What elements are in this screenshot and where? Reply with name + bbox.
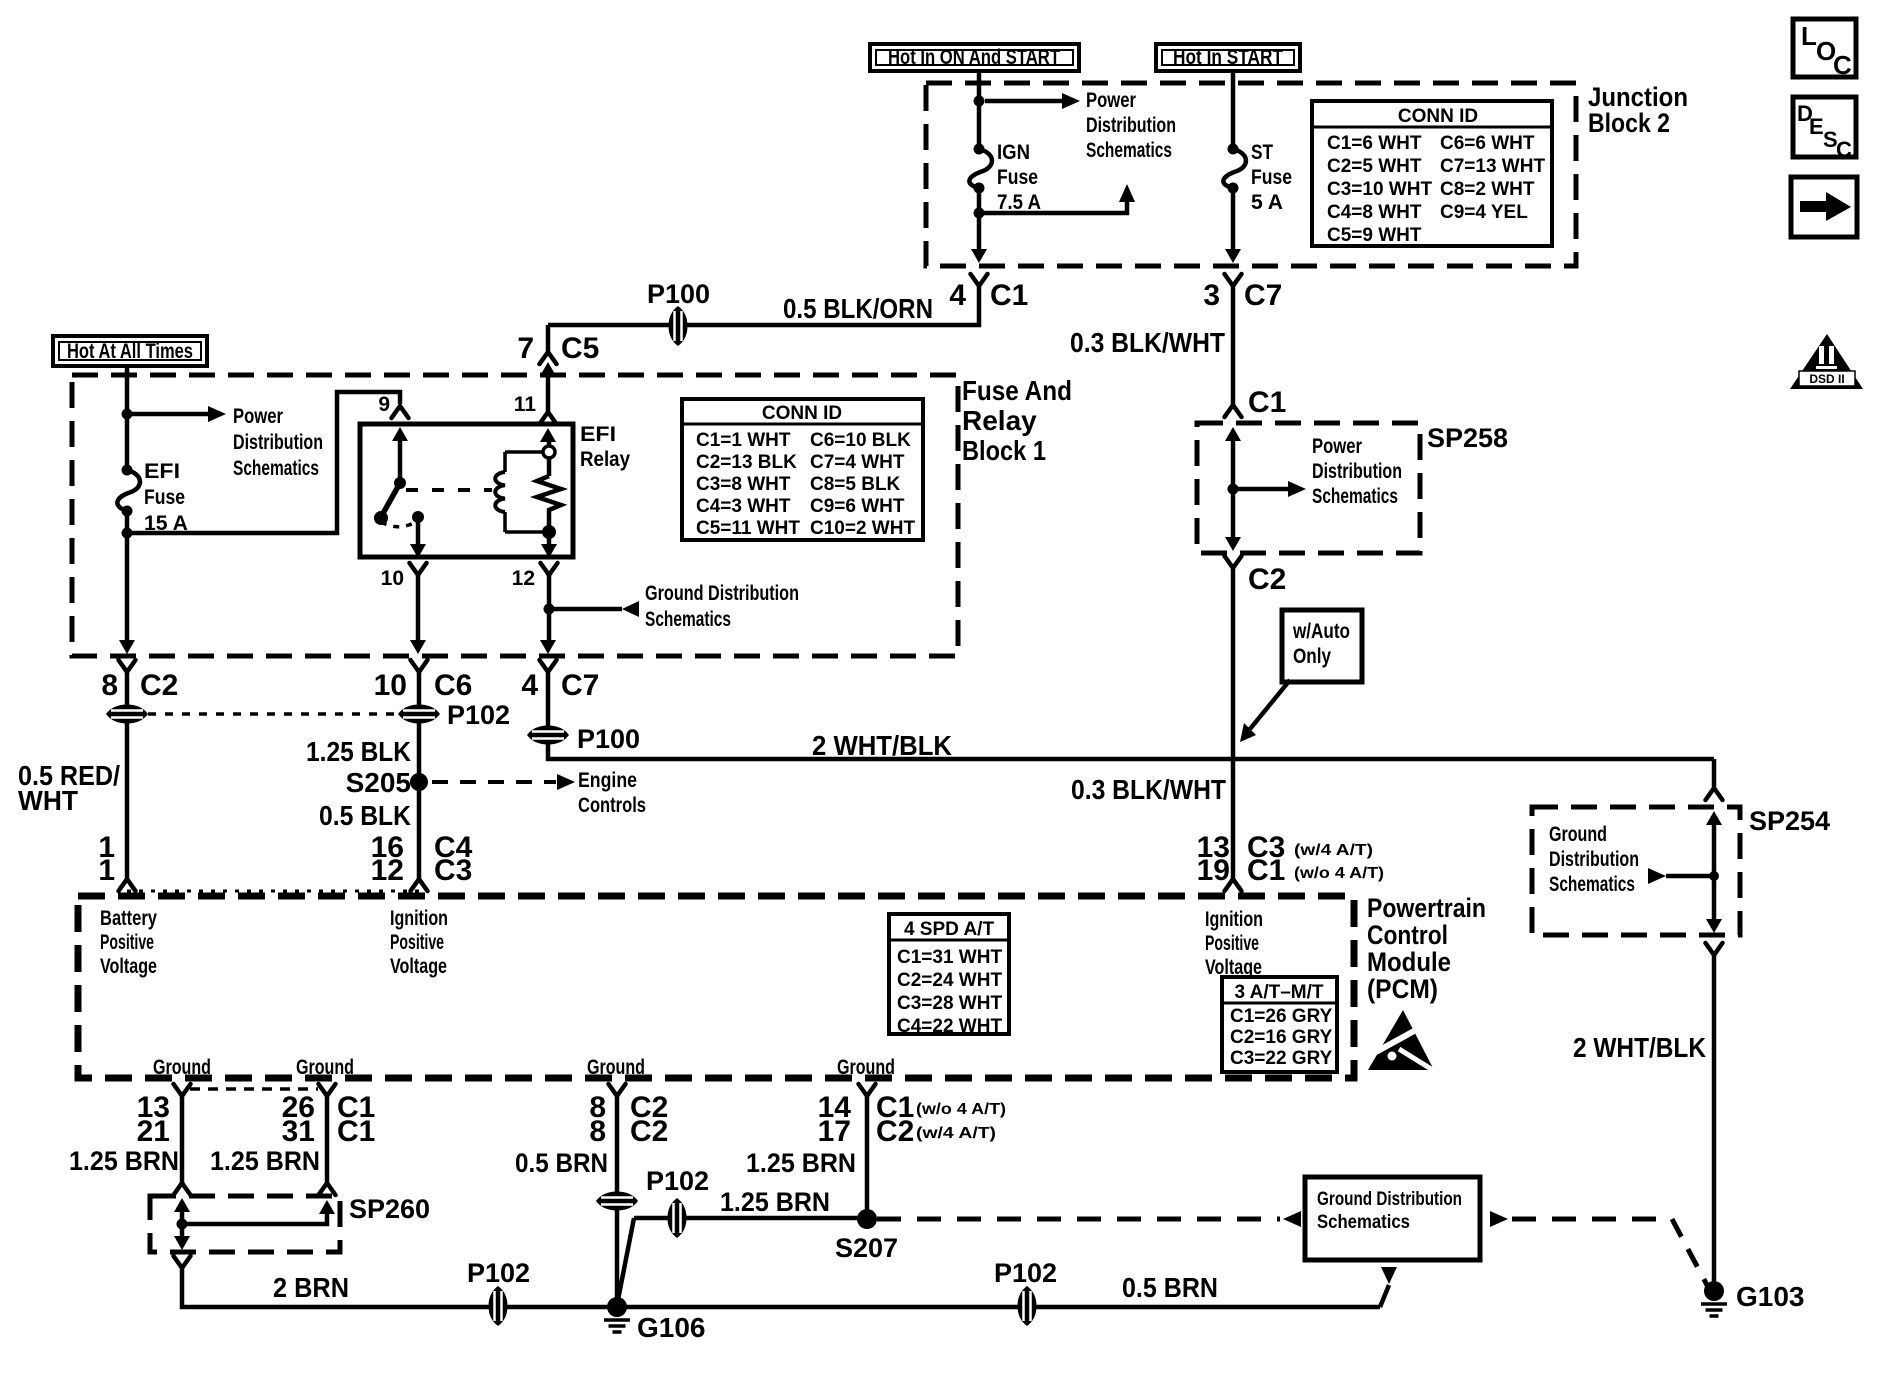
svg-text:CONN ID: CONN ID bbox=[762, 403, 842, 424]
svg-text:C1: C1 bbox=[990, 279, 1028, 312]
svg-text:Ground: Ground bbox=[1549, 823, 1607, 846]
svg-text:Block 2: Block 2 bbox=[1588, 108, 1670, 138]
svg-text:Positive: Positive bbox=[1205, 932, 1259, 955]
svg-text:Distribution: Distribution bbox=[1549, 848, 1639, 871]
svg-text:C9=4 YEL: C9=4 YEL bbox=[1440, 202, 1528, 223]
svg-text:SP260: SP260 bbox=[349, 1194, 430, 1224]
svg-text:C1=26 GRY: C1=26 GRY bbox=[1230, 1006, 1333, 1027]
svg-text:1.25 BRN: 1.25 BRN bbox=[746, 1148, 856, 1178]
svg-text:2 WHT/BLK: 2 WHT/BLK bbox=[812, 730, 952, 761]
svg-text:Control: Control bbox=[1367, 920, 1448, 950]
svg-text:Battery: Battery bbox=[100, 907, 157, 930]
svg-text:Ground: Ground bbox=[587, 1056, 645, 1079]
svg-text:Engine: Engine bbox=[578, 769, 637, 792]
svg-text:Hot In ON And START: Hot In ON And START bbox=[888, 46, 1060, 69]
svg-text:C3=8 WHT: C3=8 WHT bbox=[696, 474, 791, 495]
svg-text:C6=6 WHT: C6=6 WHT bbox=[1440, 133, 1535, 154]
svg-text:Ignition: Ignition bbox=[1205, 908, 1263, 931]
svg-text:Ground Distribution: Ground Distribution bbox=[1317, 1189, 1462, 1210]
svg-text:C10=2 WHT: C10=2 WHT bbox=[810, 518, 915, 539]
svg-text:DSD II: DSD II bbox=[1809, 372, 1844, 386]
svg-text:S207: S207 bbox=[835, 1233, 898, 1263]
svg-text:C2=24 WHT: C2=24 WHT bbox=[897, 970, 1002, 991]
svg-text:C4=3 WHT: C4=3 WHT bbox=[696, 496, 791, 517]
svg-text:(w/o 4 A/T): (w/o 4 A/T) bbox=[1294, 865, 1384, 882]
svg-text:L: L bbox=[1801, 21, 1817, 51]
svg-text:C2: C2 bbox=[1248, 563, 1286, 596]
svg-text:Distribution: Distribution bbox=[1312, 460, 1402, 483]
svg-text:Fuse: Fuse bbox=[997, 166, 1038, 189]
svg-text:C2=5 WHT: C2=5 WHT bbox=[1327, 156, 1422, 177]
svg-text:10: 10 bbox=[381, 567, 404, 590]
svg-text:7: 7 bbox=[517, 332, 534, 365]
svg-text:Voltage: Voltage bbox=[100, 955, 157, 978]
svg-text:Module: Module bbox=[1367, 947, 1451, 977]
svg-text:C2: C2 bbox=[876, 1115, 914, 1148]
svg-text:C3=22 GRY: C3=22 GRY bbox=[1230, 1048, 1333, 1069]
svg-text:C7=13 WHT: C7=13 WHT bbox=[1440, 156, 1545, 177]
svg-text:8: 8 bbox=[101, 669, 118, 702]
svg-text:Distribution: Distribution bbox=[233, 431, 323, 454]
svg-text:C2: C2 bbox=[140, 669, 178, 702]
svg-text:(w/4 A/T): (w/4 A/T) bbox=[1294, 842, 1373, 859]
svg-text:Ground: Ground bbox=[296, 1056, 354, 1079]
svg-text:C1=6 WHT: C1=6 WHT bbox=[1327, 133, 1422, 154]
svg-text:17: 17 bbox=[818, 1115, 851, 1148]
svg-text:12: 12 bbox=[512, 567, 535, 590]
svg-text:C7=4 WHT: C7=4 WHT bbox=[810, 452, 905, 473]
svg-text:C1: C1 bbox=[1247, 854, 1285, 887]
svg-text:P100: P100 bbox=[647, 279, 710, 309]
svg-text:Controls: Controls bbox=[578, 794, 646, 817]
svg-text:19: 19 bbox=[1197, 854, 1230, 887]
svg-text:C2=13 BLK: C2=13 BLK bbox=[696, 452, 797, 473]
svg-text:1.25 BLK: 1.25 BLK bbox=[306, 736, 411, 767]
svg-text:(w/o 4 A/T): (w/o 4 A/T) bbox=[916, 1101, 1006, 1118]
svg-text:0.5 BRN: 0.5 BRN bbox=[1122, 1272, 1218, 1303]
svg-text:C7: C7 bbox=[1244, 279, 1282, 312]
svg-text:C3=10 WHT: C3=10 WHT bbox=[1327, 179, 1432, 200]
svg-text:(w/4 A/T): (w/4 A/T) bbox=[916, 1125, 996, 1142]
svg-text:P102: P102 bbox=[467, 1258, 530, 1288]
svg-text:Only: Only bbox=[1293, 645, 1331, 668]
svg-text:C8=2 WHT: C8=2 WHT bbox=[1440, 179, 1535, 200]
svg-text:Fuse: Fuse bbox=[1251, 166, 1292, 189]
svg-text:Fuse And: Fuse And bbox=[962, 375, 1072, 406]
svg-text:1.25 BRN: 1.25 BRN bbox=[69, 1146, 179, 1176]
svg-text:C6=10 BLK: C6=10 BLK bbox=[810, 430, 911, 451]
svg-text:P102: P102 bbox=[646, 1166, 709, 1196]
svg-text:Ground Distribution: Ground Distribution bbox=[645, 582, 799, 605]
svg-text:P102: P102 bbox=[994, 1258, 1057, 1288]
svg-text:12: 12 bbox=[371, 854, 404, 887]
svg-text:C: C bbox=[1836, 137, 1852, 162]
svg-text:4: 4 bbox=[521, 669, 538, 702]
svg-text:11: 11 bbox=[514, 393, 537, 416]
svg-text:Power: Power bbox=[1086, 89, 1136, 112]
svg-text:C1: C1 bbox=[337, 1115, 375, 1148]
svg-text:C1=1 WHT: C1=1 WHT bbox=[696, 430, 791, 451]
svg-text:E: E bbox=[1809, 114, 1824, 139]
svg-text:C4=8 WHT: C4=8 WHT bbox=[1327, 202, 1422, 223]
svg-text:C2=16 GRY: C2=16 GRY bbox=[1230, 1027, 1333, 1048]
svg-text:31: 31 bbox=[282, 1115, 315, 1148]
svg-text:C5=9 WHT: C5=9 WHT bbox=[1327, 225, 1422, 246]
svg-text:C5=11 WHT: C5=11 WHT bbox=[696, 518, 800, 539]
svg-text:Relay: Relay bbox=[962, 405, 1037, 436]
svg-text:Schematics: Schematics bbox=[1317, 1212, 1410, 1233]
svg-text:Schematics: Schematics bbox=[645, 608, 731, 631]
svg-text:0.5 BLK/ORN: 0.5 BLK/ORN bbox=[783, 293, 933, 324]
svg-text:Power: Power bbox=[233, 405, 283, 428]
svg-text:Distribution: Distribution bbox=[1086, 114, 1176, 137]
svg-text:C1=31 WHT: C1=31 WHT bbox=[897, 947, 1002, 968]
svg-text:C7: C7 bbox=[561, 669, 599, 702]
svg-text:3 A/T–M/T: 3 A/T–M/T bbox=[1234, 982, 1323, 1003]
svg-text:5 A: 5 A bbox=[1251, 191, 1283, 214]
svg-text:Ignition: Ignition bbox=[390, 907, 448, 930]
svg-text:C8=5 BLK: C8=5 BLK bbox=[810, 474, 901, 495]
svg-text:Positive: Positive bbox=[100, 931, 154, 954]
svg-text:C5: C5 bbox=[561, 332, 599, 365]
svg-text:G106: G106 bbox=[637, 1312, 706, 1343]
svg-text:Hot In START: Hot In START bbox=[1173, 46, 1283, 69]
svg-text:ST: ST bbox=[1251, 141, 1273, 164]
svg-text:2 BRN: 2 BRN bbox=[273, 1272, 349, 1303]
svg-text:WHT: WHT bbox=[18, 785, 78, 816]
svg-text:Relay: Relay bbox=[580, 448, 630, 471]
svg-text:EFI: EFI bbox=[144, 460, 180, 483]
svg-text:C9=6 WHT: C9=6 WHT bbox=[810, 496, 905, 517]
svg-text:P100: P100 bbox=[577, 724, 640, 754]
svg-text:SP258: SP258 bbox=[1427, 423, 1508, 453]
svg-text:1: 1 bbox=[98, 854, 115, 887]
svg-text:Voltage: Voltage bbox=[390, 955, 447, 978]
svg-text:7.5 A: 7.5 A bbox=[997, 191, 1041, 214]
svg-text:0.5 BLK: 0.5 BLK bbox=[319, 800, 411, 831]
svg-text:Schematics: Schematics bbox=[1549, 873, 1635, 896]
svg-text:C4=22 WHT: C4=22 WHT bbox=[897, 1016, 1002, 1037]
svg-text:Positive: Positive bbox=[390, 931, 444, 954]
svg-text:Schematics: Schematics bbox=[1312, 485, 1398, 508]
svg-text:0.3 BLK/WHT: 0.3 BLK/WHT bbox=[1070, 327, 1225, 358]
svg-text:Powertrain: Powertrain bbox=[1367, 893, 1486, 923]
svg-text:IGN: IGN bbox=[997, 141, 1030, 164]
svg-text:C3: C3 bbox=[434, 854, 472, 887]
svg-text:EFI: EFI bbox=[580, 423, 616, 446]
svg-text:Hot At All Times: Hot At All Times bbox=[67, 340, 193, 363]
svg-text:1.25 BRN: 1.25 BRN bbox=[720, 1187, 830, 1217]
svg-text:Ground: Ground bbox=[153, 1056, 211, 1079]
svg-text:C: C bbox=[1833, 50, 1852, 80]
svg-text:Schematics: Schematics bbox=[233, 457, 319, 480]
svg-text:C6: C6 bbox=[434, 669, 472, 702]
svg-text:(PCM): (PCM) bbox=[1367, 974, 1438, 1004]
svg-text:Block 1: Block 1 bbox=[962, 435, 1046, 466]
svg-text:10: 10 bbox=[374, 669, 407, 702]
svg-text:S205: S205 bbox=[346, 767, 411, 798]
svg-text:1.25 BRN: 1.25 BRN bbox=[210, 1146, 320, 1176]
svg-text:C2: C2 bbox=[630, 1115, 668, 1148]
svg-text:G103: G103 bbox=[1736, 1281, 1805, 1312]
svg-text:Schematics: Schematics bbox=[1086, 139, 1172, 162]
svg-text:Ground: Ground bbox=[837, 1056, 895, 1079]
svg-text:3: 3 bbox=[1203, 279, 1220, 312]
svg-text:8: 8 bbox=[589, 1115, 606, 1148]
svg-text:0.3 BLK/WHT: 0.3 BLK/WHT bbox=[1071, 774, 1226, 805]
svg-text:Power: Power bbox=[1312, 435, 1362, 458]
svg-text:4: 4 bbox=[949, 279, 966, 312]
svg-text:2 WHT/BLK: 2 WHT/BLK bbox=[1573, 1032, 1706, 1063]
svg-text:0.5 BRN: 0.5 BRN bbox=[515, 1148, 608, 1178]
svg-text:CONN ID: CONN ID bbox=[1398, 106, 1478, 127]
svg-text:C3=28 WHT: C3=28 WHT bbox=[897, 993, 1002, 1014]
svg-text:21: 21 bbox=[137, 1115, 170, 1148]
svg-text:SP254: SP254 bbox=[1749, 806, 1830, 836]
svg-text:9: 9 bbox=[378, 393, 390, 416]
svg-text:C1: C1 bbox=[1248, 386, 1286, 419]
svg-text:P102: P102 bbox=[447, 700, 510, 730]
svg-text:4 SPD A/T: 4 SPD A/T bbox=[904, 919, 994, 940]
svg-text:Fuse: Fuse bbox=[144, 486, 185, 509]
svg-text:w/Auto: w/Auto bbox=[1292, 620, 1350, 643]
